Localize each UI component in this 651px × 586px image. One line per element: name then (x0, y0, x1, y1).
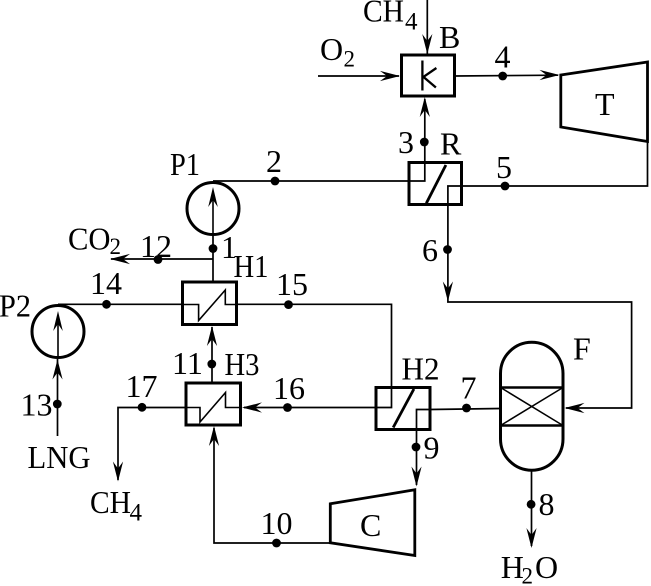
svg-text:O: O (535, 549, 558, 585)
svg-text:O: O (320, 31, 343, 67)
arrow O2 into B (right) (380, 71, 400, 81)
node 8 (527, 500, 536, 509)
node 2 (271, 177, 280, 186)
svg-text:5: 5 (496, 149, 512, 185)
svg-text:2: 2 (266, 143, 282, 179)
svg-text:R: R (440, 126, 462, 162)
label CO2 (68, 221, 121, 260)
separator F (501, 342, 564, 470)
svg-text:9: 9 (424, 430, 440, 466)
svg-text:B: B (439, 19, 460, 55)
wire stream 8: F bottom to H2O out (531, 471, 533, 547)
svg-text:H: H (501, 549, 524, 585)
node 1 (209, 244, 218, 253)
svg-text:P2: P2 (0, 288, 31, 324)
svg-text:2: 2 (522, 564, 534, 586)
wire stream 11: H3 up to H1 (211, 327, 213, 383)
node 12 (154, 255, 163, 264)
arrow stream 6 (down, mid-wire) (443, 282, 453, 302)
wire stream 16: H2 to H3 (244, 407, 376, 409)
label H2O (501, 549, 558, 586)
svg-text:C: C (360, 507, 381, 543)
wire O2 feed into B (318, 75, 399, 77)
combustor B (402, 55, 455, 96)
svg-text:6: 6 (422, 232, 438, 268)
wire stream 4: B to T (455, 74, 559, 77)
svg-text:11: 11 (172, 345, 203, 381)
wire stream 2: P1 top to R (213, 180, 409, 182)
svg-text:H1: H1 (234, 248, 269, 284)
svg-text:T: T (595, 86, 615, 122)
wire stream 6: R down, right, down, into F (448, 205, 632, 409)
node 4 (498, 72, 507, 81)
arrow stream 13 into P2 (up) (52, 360, 62, 380)
svg-text:2: 2 (344, 47, 356, 72)
svg-text:4: 4 (405, 9, 418, 36)
wire stream 9: H2 down to C (416, 430, 418, 486)
wire stream 3: R up to B (424, 99, 426, 163)
node 10 (272, 539, 281, 548)
wire stream 13: LNG feed into P2 (57, 359, 59, 436)
node 17 (138, 403, 147, 412)
node 14 (102, 300, 111, 309)
svg-text:4: 4 (495, 39, 511, 75)
svg-text:F: F (573, 331, 591, 367)
arrow stream 17 CH4 out (down) (113, 462, 123, 482)
wire stream 10: C to H3 (214, 428, 331, 543)
svg-text:H3: H3 (225, 346, 260, 382)
wire stream 5: T exhaust down and left to R (462, 142, 648, 187)
svg-text:LNG: LNG (28, 439, 91, 475)
arrow stream 16 into H3 (left) (242, 402, 262, 412)
pump P2 (32, 306, 84, 358)
wire stream 12: CO2 offtake (111, 258, 213, 260)
arrow stream 9 into C (down) (411, 467, 421, 487)
node 3 (420, 138, 429, 147)
pump P1 (187, 183, 239, 235)
svg-text:CH: CH (363, 0, 404, 29)
arrow stream 11 into H1 (up) (207, 326, 217, 346)
wire stream 1: P1 down to H1 (212, 235, 214, 283)
label O2 (320, 31, 355, 72)
node 9 (412, 443, 421, 452)
arrow stream 10 into H3 (up) (209, 426, 219, 446)
svg-text:3: 3 (398, 124, 414, 160)
wire stream 15: H1 right then down into H2 (237, 304, 392, 387)
svg-text:14: 14 (90, 265, 122, 301)
arrow stream 12 CO2 out (left) (110, 254, 130, 264)
heat exchanger H1 (183, 282, 237, 325)
arrow stream 8 H2O out (down) (526, 528, 536, 548)
node 5 (501, 182, 510, 191)
svg-text:2: 2 (110, 234, 122, 259)
svg-text:4: 4 (130, 500, 143, 527)
compressor C (330, 490, 415, 556)
node 6 (443, 245, 452, 254)
svg-text:CO: CO (68, 221, 111, 257)
node 15 (284, 300, 293, 309)
arrow stream 4 into T (right) (540, 70, 560, 80)
svg-text:CH: CH (90, 484, 131, 520)
svg-text:10: 10 (261, 505, 293, 541)
wire stream 14: P2 to H1 (58, 303, 183, 305)
turbine T (561, 62, 648, 142)
arrow stream 6 into F (left) (565, 403, 585, 413)
node 7 (462, 404, 471, 413)
svg-text:7: 7 (461, 370, 477, 406)
node 11 (207, 360, 216, 369)
wire CH4 feed into B (426, 0, 428, 54)
label CH4 bottom (90, 484, 143, 527)
wire stream 7: F to H2 (430, 409, 501, 410)
svg-text:16: 16 (273, 370, 305, 406)
svg-text:13: 13 (21, 387, 53, 423)
node 13 (53, 400, 62, 409)
heat exchanger H3 (186, 383, 241, 425)
svg-text:8: 8 (539, 486, 555, 522)
wire stream 17: H3 left then down to CH4 out (118, 408, 186, 481)
svg-text:15: 15 (276, 266, 308, 302)
svg-text:H2: H2 (402, 351, 440, 387)
arrow CH4 into B (down) (422, 34, 432, 54)
arrow stream 3 into B (up) (420, 97, 430, 117)
node 16 (283, 403, 292, 412)
svg-text:12: 12 (140, 228, 172, 264)
heat exchanger H2 (376, 388, 430, 430)
svg-text:17: 17 (126, 368, 158, 404)
label CH4 top (363, 0, 418, 36)
svg-text:P1: P1 (170, 146, 200, 182)
regenerator R (409, 163, 462, 205)
